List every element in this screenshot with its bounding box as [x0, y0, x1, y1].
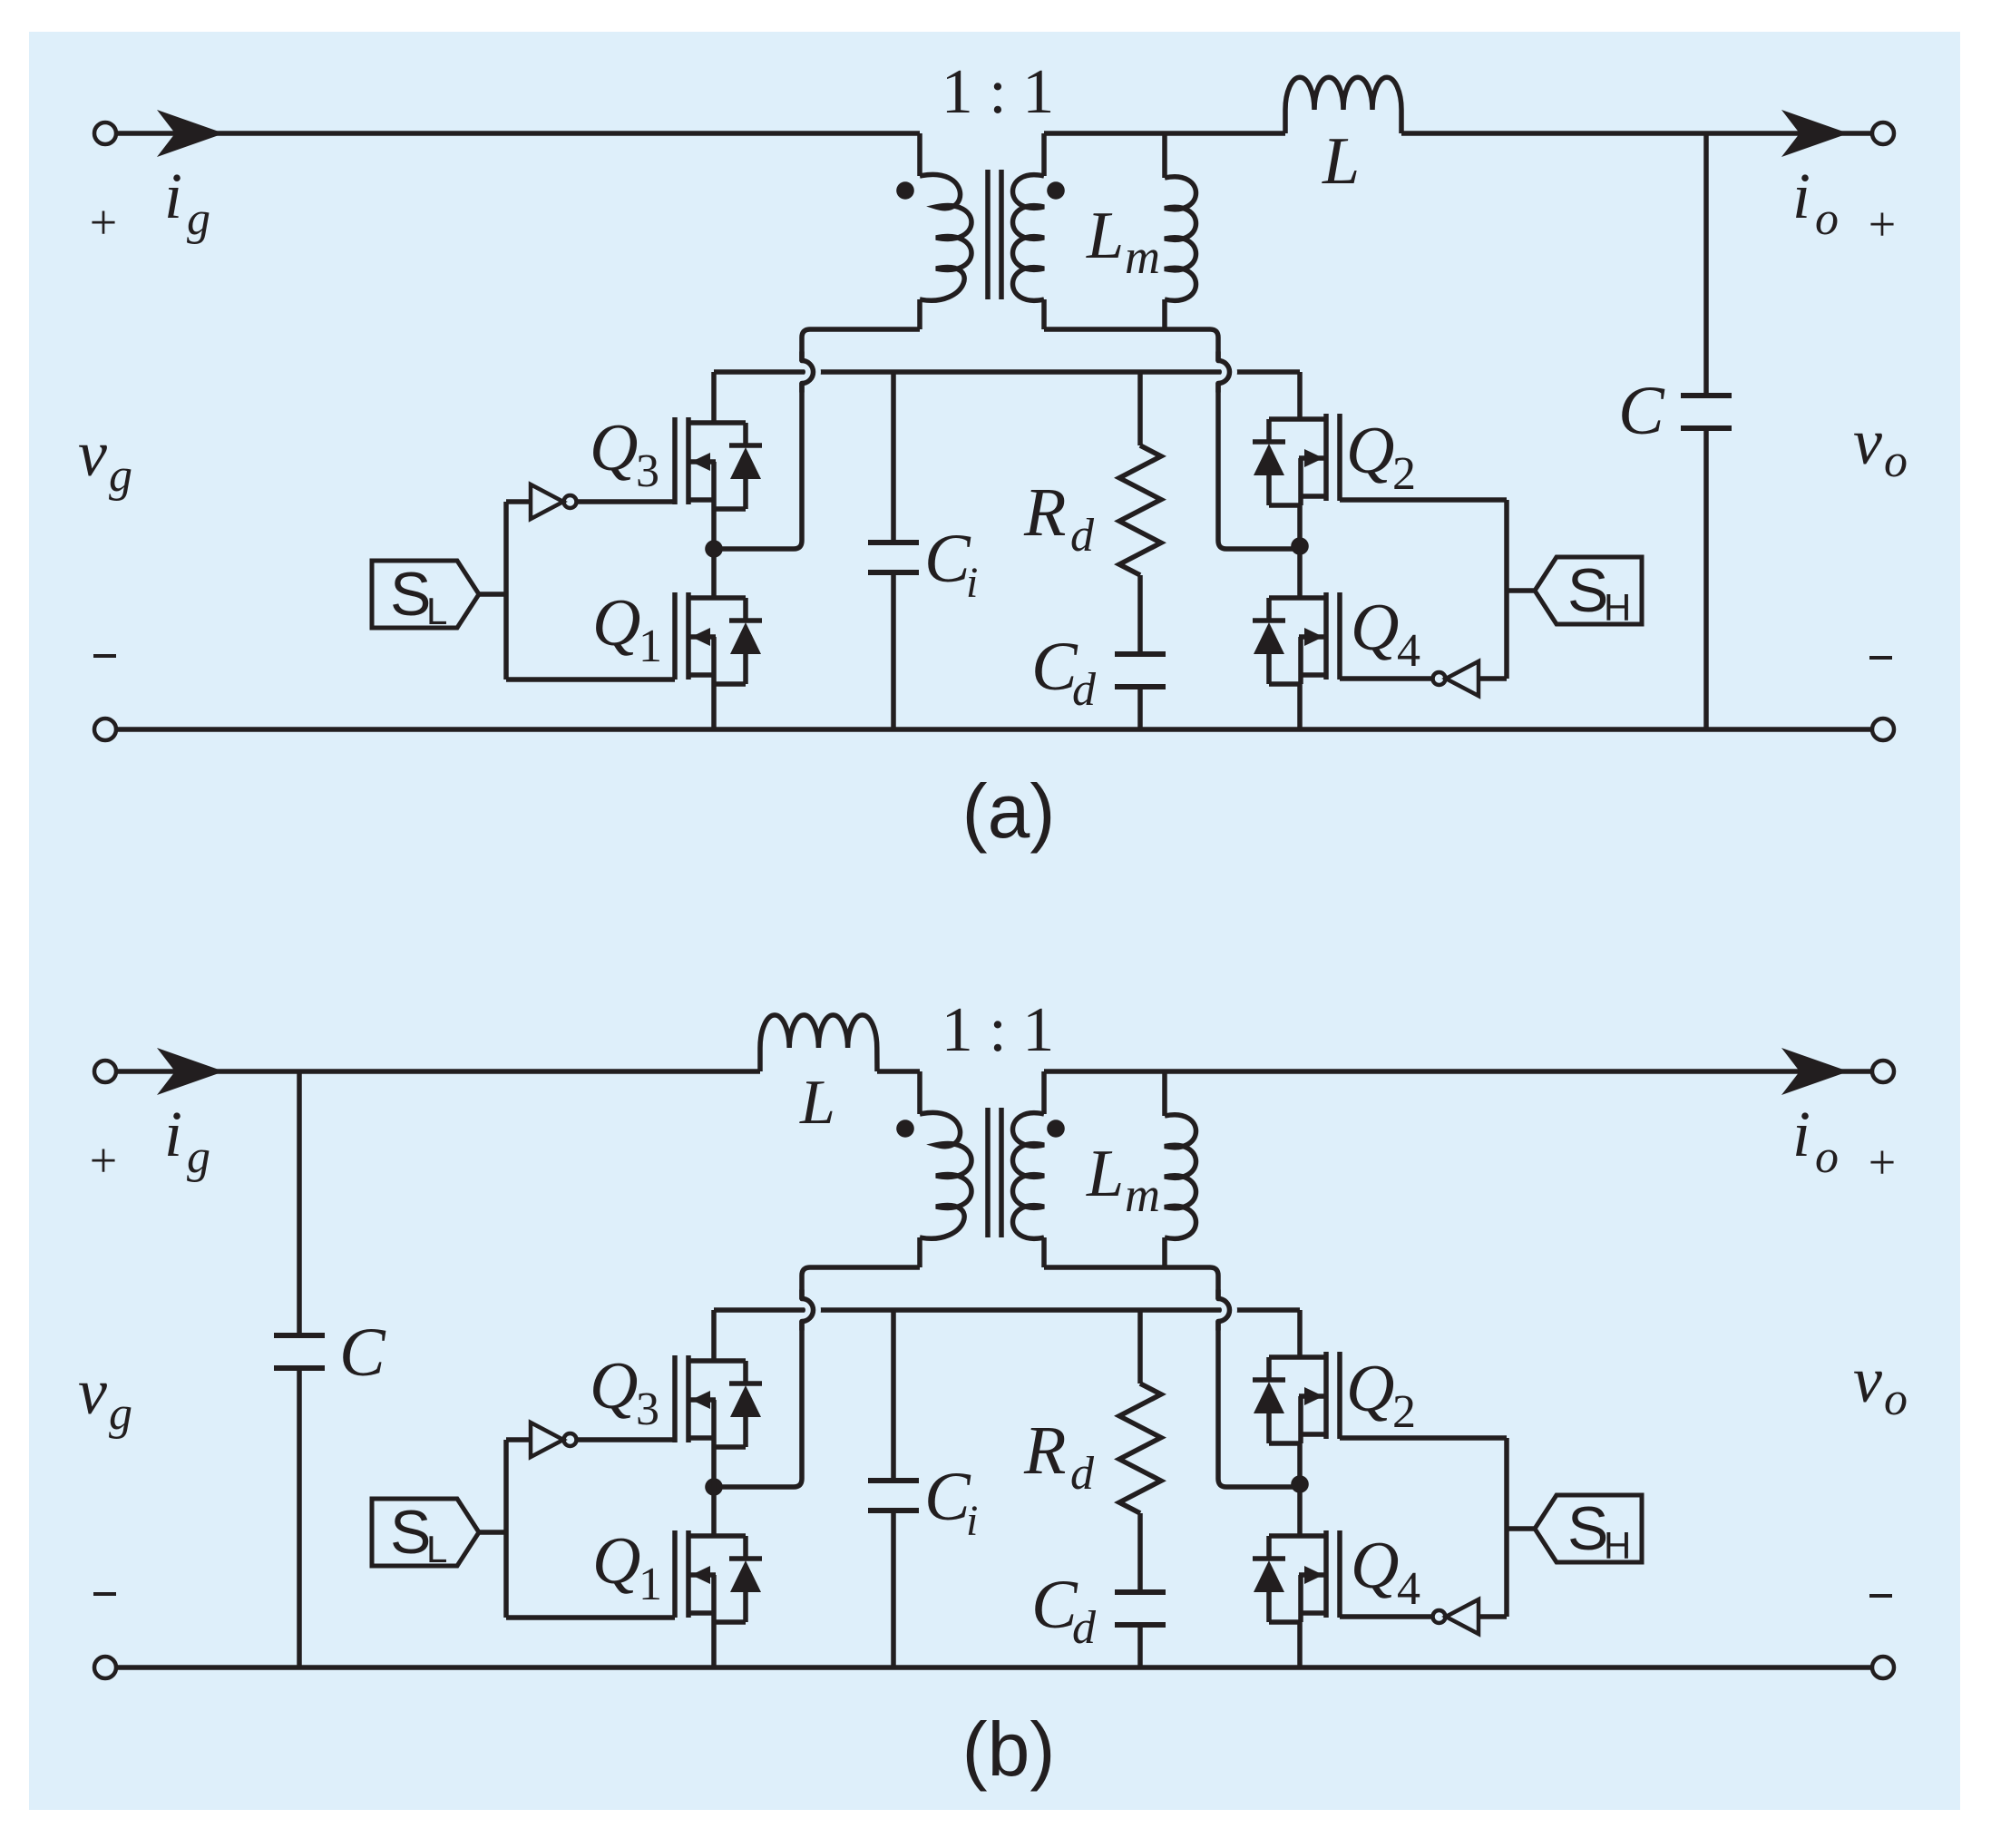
wire to right midpoint [1218, 1321, 1300, 1487]
wire to inverter input [506, 1437, 531, 1442]
svg-text:o: o [1815, 193, 1839, 245]
inverter U1 [531, 484, 563, 519]
resistor Rd [1119, 1310, 1161, 1592]
wire Q4 drain [1297, 1484, 1303, 1536]
svg-text:C: C [1618, 373, 1665, 449]
wire node B horizontal [714, 1307, 1300, 1313]
transistor Q4 (b) [1253, 1530, 1340, 1622]
transistor Q1 (b) [675, 1530, 762, 1622]
inverter U1 [531, 1423, 563, 1457]
svg-text:o: o [1884, 1374, 1908, 1425]
svg-text:R: R [1023, 1413, 1066, 1489]
wire gate bus right vertical [1504, 1438, 1509, 1617]
wire Q3 drain [711, 372, 717, 423]
current arrow ig [157, 1048, 224, 1095]
wire Q2 source to midpoint [1297, 505, 1303, 546]
wire Q1 source to rail [711, 684, 717, 729]
svg-text:v: v [1853, 406, 1882, 478]
svg-text:1: 1 [639, 621, 662, 672]
wire node B horizontal [714, 369, 1300, 375]
wire SH to gate bus [1507, 588, 1535, 593]
inverter U2 [1446, 1599, 1479, 1634]
wire gate bus right vertical [1504, 500, 1509, 679]
wire SH to gate bus [1507, 1526, 1535, 1531]
transformer dot primary [896, 181, 914, 200]
node right midpoint junction [1291, 1475, 1309, 1493]
transformer dot secondary [1047, 181, 1065, 200]
wire hop right [1218, 1299, 1229, 1322]
svg-text:2: 2 [1392, 1386, 1416, 1438]
svg-text:d: d [1072, 664, 1097, 716]
wire hop right [1218, 361, 1229, 384]
svg-text:v: v [78, 417, 107, 490]
wire secondary return [1044, 1267, 1218, 1299]
wire to right midpoint [1218, 383, 1300, 549]
inductor Lm magnetizing [1165, 1071, 1196, 1267]
svg-text:i: i [966, 559, 978, 607]
svg-text:1 : 1: 1 : 1 [942, 57, 1054, 127]
wire to left midpoint [714, 1321, 802, 1487]
node left midpoint junction [705, 540, 723, 558]
transistor Q2 (b) [1253, 1352, 1340, 1443]
wire gate bus left vertical [503, 1440, 509, 1618]
inductor Lm magnetizing [1165, 133, 1196, 329]
wire to inverter input [506, 499, 531, 504]
svg-text:S: S [390, 560, 431, 629]
transformer T1 secondary winding [1013, 133, 1045, 329]
wire primary return [802, 1267, 920, 1299]
svg-text:+: + [90, 1133, 117, 1188]
resistor Rd [1119, 372, 1161, 654]
wire to left midpoint [714, 383, 802, 549]
transformer dot secondary [1047, 1120, 1065, 1138]
svg-text:(a): (a) [962, 768, 1056, 854]
svg-text:Q: Q [1346, 1352, 1394, 1426]
capacitor Ci [868, 1310, 919, 1667]
svg-text:i: i [164, 1098, 182, 1170]
current arrow ig [157, 110, 224, 157]
wire top rail left [116, 131, 920, 136]
wire bus to inverter input [1479, 1614, 1507, 1619]
inductor L (series, left) [760, 1015, 920, 1071]
transformer core [988, 170, 1001, 299]
svg-text:g: g [109, 1388, 132, 1440]
svg-text:i: i [1792, 1098, 1810, 1170]
svg-text:g: g [187, 193, 210, 245]
svg-text:v: v [78, 1355, 107, 1428]
wire Q4 source to rail [1297, 684, 1303, 729]
transistor Q3 [675, 417, 762, 509]
wire Q1 drain [711, 1487, 717, 1536]
svg-text:Q: Q [590, 411, 638, 485]
transformer T1 primary winding [920, 133, 971, 329]
wire Q2 drain [1297, 1310, 1303, 1357]
drive tag SL [372, 1499, 479, 1566]
svg-text:g: g [109, 450, 132, 502]
svg-text:L: L [1086, 199, 1124, 273]
wire Q1 drain [711, 549, 717, 598]
capacitor Cd [1115, 654, 1166, 729]
svg-text:L: L [1322, 124, 1360, 199]
svg-text:H: H [1604, 586, 1631, 629]
wire hop left [802, 1299, 814, 1322]
transistor Q2 [1253, 414, 1340, 505]
inverter U2 [1446, 661, 1479, 696]
svg-text:R: R [1023, 474, 1066, 551]
wire Q1 source to rail [711, 1622, 717, 1667]
wire inverter to Q3 gate [577, 1437, 675, 1442]
svg-text:S: S [1567, 1494, 1608, 1563]
wire SL to gate bus [479, 592, 506, 597]
input terminal + (port) [94, 1061, 116, 1082]
wire secondary return [1044, 329, 1218, 361]
svg-text:m: m [1125, 1168, 1160, 1222]
svg-text:Q: Q [1351, 591, 1399, 665]
wire top rail right [1044, 131, 1285, 136]
wire bottom rail [116, 1665, 1872, 1670]
svg-text:H: H [1604, 1524, 1631, 1567]
wire primary return [802, 329, 920, 361]
svg-text:3: 3 [636, 445, 659, 497]
wire SL to Q1 gate [506, 677, 675, 682]
wire Q3 source to midpoint [711, 509, 717, 549]
wire hop left [802, 361, 814, 384]
svg-text:C: C [924, 521, 971, 597]
wire Q2 gate to bus [1340, 497, 1507, 503]
label - output [1869, 1594, 1892, 1598]
svg-text:1 : 1: 1 : 1 [942, 995, 1054, 1065]
svg-text:o: o [1884, 435, 1908, 487]
wire SL to Q1 gate [506, 1615, 675, 1620]
drive tag SH [1535, 557, 1642, 624]
svg-text:Q: Q [590, 1349, 638, 1423]
wire inverter to Q4 gate [1340, 1614, 1432, 1619]
svg-text:i: i [1792, 160, 1810, 232]
wire Q3 drain [711, 1310, 717, 1361]
svg-text:o: o [1815, 1131, 1839, 1183]
capacitor Cd [1115, 1592, 1166, 1667]
svg-text:1: 1 [639, 1559, 662, 1610]
svg-text:+: + [90, 195, 117, 249]
svg-text:L: L [426, 1528, 447, 1570]
drive tag SH [1535, 1495, 1642, 1562]
wire Q4 drain [1297, 546, 1303, 598]
svg-text:4: 4 [1397, 625, 1420, 677]
svg-text:4: 4 [1397, 1563, 1420, 1615]
output terminal + (port) [1872, 122, 1894, 144]
svg-text:Q: Q [1351, 1529, 1399, 1603]
svg-text:i: i [966, 1497, 978, 1545]
wire top rail left [116, 1069, 760, 1074]
wire Q2 source to midpoint [1297, 1443, 1303, 1484]
svg-text:Q: Q [1346, 414, 1394, 488]
wire inverter to Q3 gate [577, 499, 675, 504]
capacitor C (output filter) [1681, 133, 1732, 729]
svg-text:m: m [1125, 230, 1160, 284]
svg-text:g: g [187, 1131, 210, 1183]
wire bottom rail [116, 727, 1872, 732]
node left midpoint junction [705, 1478, 723, 1496]
svg-text:L: L [1086, 1137, 1124, 1211]
wire SL to gate bus [479, 1530, 506, 1535]
svg-text:C: C [339, 1315, 386, 1391]
svg-text:Q: Q [592, 586, 640, 660]
wire top rail right [1044, 1069, 1872, 1074]
transformer dot primary [896, 1120, 914, 1138]
wire Q2 gate to bus [1340, 1435, 1507, 1441]
drive tag SL [372, 561, 479, 628]
wire bus to inverter input [1479, 676, 1507, 681]
input terminal - (port) [94, 1657, 116, 1678]
wire gate bus left vertical [503, 502, 509, 680]
wire Q2 drain [1297, 372, 1303, 419]
transformer T1 secondary winding [1013, 1071, 1045, 1267]
svg-text:2: 2 [1392, 448, 1416, 500]
transistor Q4 [1253, 592, 1340, 684]
wire inverter to Q4 gate [1340, 676, 1432, 681]
svg-text:C: C [924, 1459, 971, 1535]
output terminal - (port) [1872, 719, 1894, 740]
current arrow io [1781, 110, 1849, 157]
input terminal + (port) [94, 122, 116, 144]
wire Q4 source to rail [1297, 1622, 1303, 1667]
transformer core [988, 1108, 1001, 1237]
svg-text:3: 3 [636, 1384, 659, 1435]
label - input [93, 1592, 116, 1596]
svg-text:(b): (b) [962, 1706, 1056, 1792]
svg-text:Q: Q [592, 1524, 640, 1599]
output terminal + (port) [1872, 1061, 1894, 1082]
svg-text:d: d [1070, 1448, 1095, 1500]
node right midpoint junction [1291, 537, 1309, 555]
svg-text:v: v [1853, 1344, 1882, 1416]
capacitor Ci [868, 372, 919, 729]
svg-text:d: d [1072, 1602, 1097, 1654]
svg-text:i: i [164, 160, 182, 232]
svg-text:S: S [390, 1498, 431, 1567]
svg-text:S: S [1567, 556, 1608, 625]
svg-text:L: L [799, 1068, 835, 1138]
output terminal - (port) [1872, 1657, 1894, 1678]
input terminal - (port) [94, 719, 116, 740]
current arrow io [1781, 1048, 1849, 1095]
transformer T1 primary winding [920, 1071, 971, 1267]
wire Q3 source to midpoint [711, 1447, 717, 1487]
transistor Q3 (b) [675, 1355, 762, 1447]
label - input [93, 654, 116, 658]
transistor Q1 [675, 592, 762, 684]
svg-text:L: L [426, 590, 447, 632]
svg-text:+: + [1869, 197, 1896, 251]
inductor L (series, right) [1285, 77, 1401, 133]
svg-text:d: d [1070, 510, 1095, 562]
svg-text:+: + [1869, 1135, 1896, 1189]
label - output [1869, 656, 1892, 660]
capacitor C (input filter) [274, 1071, 325, 1667]
